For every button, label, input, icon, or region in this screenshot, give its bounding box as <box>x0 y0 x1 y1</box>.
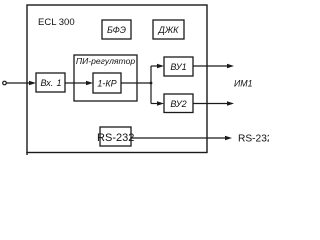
svg-text:Вх. 1: Вх. 1 <box>41 78 62 88</box>
wire branch to ВУ1 <box>151 64 164 68</box>
svg-text:RS-232: RS-232 <box>97 132 134 144</box>
wire input terminal to Вх.1 <box>7 81 37 85</box>
block Вх. 1 <box>36 73 65 92</box>
wire RS-232 output <box>131 136 232 140</box>
block ВУ2 <box>164 94 193 113</box>
svg-text:ВУ2: ВУ2 <box>170 99 186 109</box>
input terminal circle <box>3 81 7 85</box>
wire 1-КР to junction <box>121 82 151 84</box>
label ECL 300 <box>38 17 75 28</box>
block БФЭ <box>102 20 131 39</box>
svg-text:ПИ-регулятор: ПИ-регулятор <box>76 56 136 66</box>
wire ВУ1 output ИМ1 <box>193 64 234 68</box>
svg-text:RS-232: RS-232 <box>238 134 269 145</box>
junction node <box>150 82 153 85</box>
block 1-КР <box>93 73 121 93</box>
svg-text:ИМ1: ИМ1 <box>234 79 253 89</box>
wire branch vertical <box>150 66 152 104</box>
block ДЖК <box>153 20 184 39</box>
svg-text:ECL 300: ECL 300 <box>38 17 75 28</box>
controller enclosure ECL 300 <box>27 5 207 155</box>
block ВУ1 <box>164 57 193 76</box>
label ИМ1 <box>234 79 253 89</box>
wire ВУ2 output <box>193 101 234 105</box>
block RS-232 <box>97 127 134 146</box>
svg-text:1-КР: 1-КР <box>97 79 116 89</box>
wire Вх.1 to 1-КР <box>65 81 93 85</box>
label RS-232 external <box>238 134 273 145</box>
svg-text:ДЖК: ДЖК <box>158 25 180 35</box>
block ПИ-регулятор <box>74 55 137 101</box>
svg-text:БФЭ: БФЭ <box>107 25 126 35</box>
wire branch to ВУ2 <box>151 101 164 105</box>
svg-text:ВУ1: ВУ1 <box>170 62 186 72</box>
